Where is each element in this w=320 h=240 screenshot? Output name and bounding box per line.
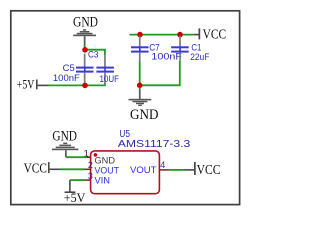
svg-text:22uF: 22uF — [190, 52, 209, 62]
svg-text:VCC: VCC — [24, 161, 47, 176]
node junction dot (top of C1) — [177, 32, 183, 38]
svg-text:AMS1117-3.3: AMS1117-3.3 — [118, 139, 191, 150]
wire: pin 4 to VCC — [170, 169, 185, 171]
svg-text:GND: GND — [73, 14, 98, 30]
capacitor C1 — [171, 36, 209, 62]
power port +5V (left) — [17, 78, 48, 92]
wire: GND stem to junction — [84, 46, 86, 50]
svg-text:VIN: VIN — [95, 176, 111, 187]
power port GND (top-left) — [73, 14, 98, 46]
svg-text:C5: C5 — [63, 63, 75, 73]
node junction dot (GND tap) — [137, 83, 143, 89]
svg-text:VCC: VCC — [197, 163, 221, 178]
svg-text:100nF: 100nF — [53, 73, 80, 83]
svg-text:GND: GND — [95, 155, 116, 165]
pin 3 — [81, 179, 91, 181]
wire: VCC to pin 2 — [60, 168, 85, 170]
wire: +5V to pin 3 — [70, 179, 85, 181]
wire: junction to C1 bottom — [140, 61, 180, 85]
wire: GND to pin 1 — [66, 156, 87, 158]
svg-text:+5V: +5V — [64, 191, 86, 205]
svg-text:2: 2 — [88, 160, 93, 170]
capacitor C5 — [53, 54, 94, 84]
power port GND (above pin 1) — [52, 129, 79, 157]
svg-text:GND: GND — [52, 129, 77, 145]
wire: top rail to VCC — [130, 34, 194, 36]
power port VCC (left) — [24, 161, 61, 176]
svg-text:3: 3 — [88, 171, 93, 181]
wire: C7 bottom to junction — [139, 61, 141, 85]
pin 2 — [81, 168, 91, 170]
pin-1 indicator dot — [94, 153, 98, 157]
svg-text:VCC: VCC — [203, 28, 227, 43]
node junction dot (top of C7) — [137, 32, 143, 38]
pin 4 — [160, 169, 170, 171]
capacitor C3 — [88, 50, 119, 84]
wire: junction to C3 top — [85, 50, 105, 55]
svg-text:100nF: 100nF — [151, 52, 182, 62]
sheet border frame — [11, 11, 240, 205]
power port VCC (top-right) — [194, 28, 227, 43]
wire: bottom rail +5V to C3 — [48, 83, 105, 85]
power port GND (middle) — [129, 88, 159, 124]
svg-text:4: 4 — [160, 160, 165, 170]
pin 1 — [81, 156, 91, 158]
svg-text:10UF: 10UF — [100, 74, 120, 84]
power port +5V (bottom) — [64, 180, 86, 205]
svg-text:C3: C3 — [88, 50, 98, 60]
op body: regulator U5 box — [91, 151, 160, 194]
node junction dot (bottom of C5) — [82, 83, 88, 89]
svg-text:+5V: +5V — [17, 78, 35, 92]
power port VCC (right) — [185, 162, 221, 178]
node junction dot (top of C5) — [82, 47, 88, 53]
capacitor C7 — [131, 36, 182, 62]
svg-text:VOUT: VOUT — [130, 165, 157, 176]
svg-text:GND: GND — [130, 107, 159, 123]
